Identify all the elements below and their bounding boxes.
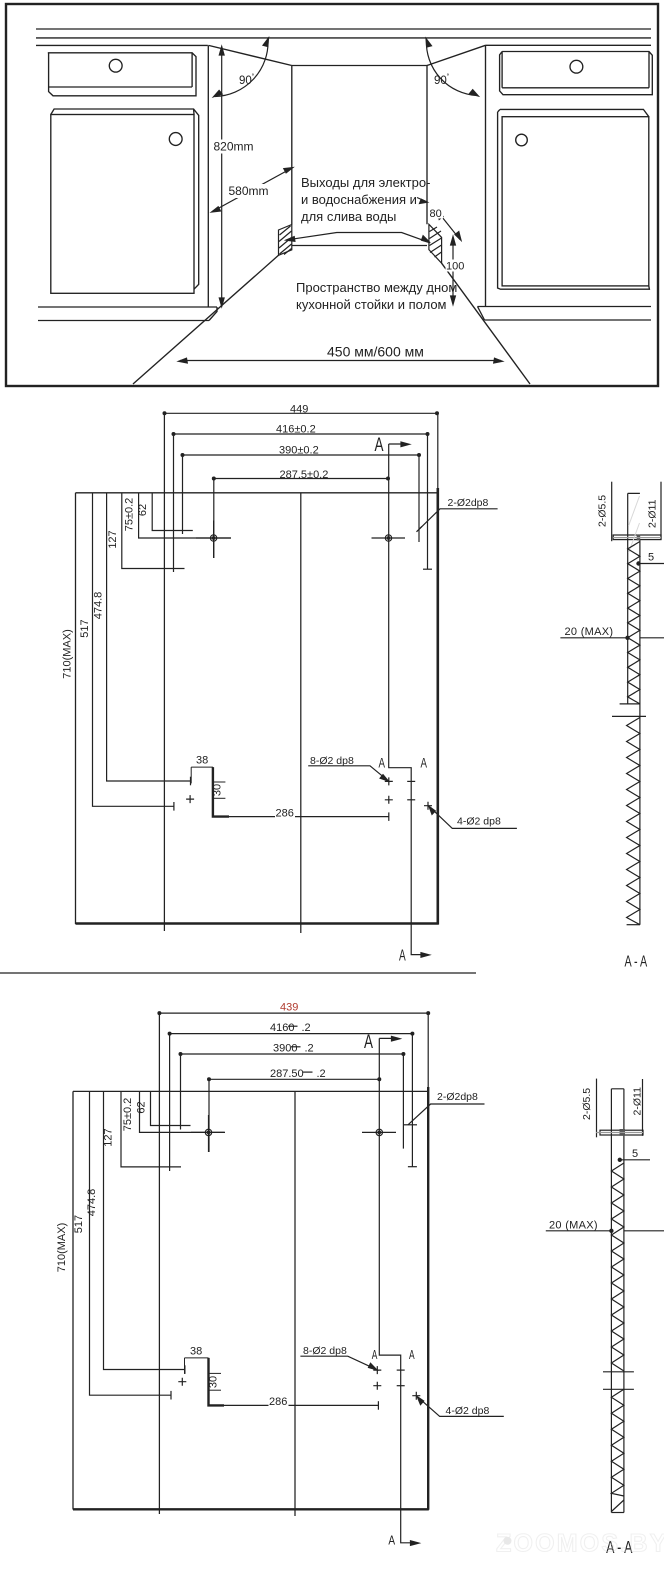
left dim 62 [151,1091,191,1125]
label 2-O5.5 [611,482,613,542]
dim 439 (red) [158,1012,430,1015]
panel top edge [73,1090,428,1092]
left drawer knob [109,59,122,72]
svg-text:517: 517 [79,619,91,637]
panel right edge [437,413,439,925]
svg-text:100: 100 [446,261,464,273]
fold line 2 [300,493,302,933]
svg-text:287.50: 287.50 [270,1068,304,1080]
construction lines (gray) [629,496,640,553]
zigzag hatch lower [627,718,640,925]
countertop underside back edge (left segment) [36,44,208,46]
svg-text:474.8: 474.8 [93,592,105,620]
svg-text:A: A [372,1347,378,1362]
left dim 127 [122,493,185,569]
svg-text:80: 80 [430,208,442,220]
label 2-O2dp8 [417,509,498,532]
hatch break ticks [603,1372,634,1390]
section line A top [379,1036,419,1545]
panel top edge [76,492,439,494]
svg-text:62: 62 [136,1101,148,1113]
niche to left wall perspective line [209,45,292,65]
svg-text:5: 5 [648,552,654,564]
svg-text:75±0.2: 75±0.2 [122,1098,134,1132]
dim 287.5+-0.2 [212,477,389,558]
svg-text:A: A [379,756,386,771]
svg-text:и водоснабжения и: и водоснабжения и [301,192,417,207]
dimension 820mm [219,47,224,307]
dim 390+-0.2 [181,454,420,542]
screw hole section [596,1129,643,1136]
hole top-right [362,1129,396,1135]
svg-text:287.5±0.2: 287.5±0.2 [280,469,329,481]
svg-text:3900: 3900 [273,1043,297,1055]
dim 287.5 0/-.2 [208,1078,381,1152]
svg-text:5: 5 [632,1148,638,1160]
svg-text:710(MAX): 710(MAX) [56,1223,68,1273]
svg-text:4-Ø2 dp8: 4-Ø2 dp8 [446,1405,490,1417]
hole top-right [372,535,406,541]
svg-text:286: 286 [276,808,294,820]
svg-text:820mm: 820mm [214,140,254,154]
notch 38/30 (bold) [185,1358,225,1406]
hatch break ticks [612,704,646,717]
fold line 2 [294,1091,296,1516]
zigzag hatch upper [628,542,640,704]
left dim 474.8 [104,1091,185,1374]
panel right edge [427,1013,429,1510]
label 8-O2 dp8 [300,1356,376,1370]
label 2-O2dp8 [403,1104,485,1125]
svg-text:286: 286 [269,1396,287,1408]
svg-text:2-Ø11: 2-Ø11 [647,499,659,528]
right cabinet side wall [485,45,487,306]
svg-text:8-Ø2 dp8: 8-Ø2 dp8 [310,755,354,767]
svg-text:30: 30 [208,1376,220,1388]
svg-text:A: A [399,948,406,965]
niche opening [292,66,427,246]
svg-text:4-Ø2 dp8: 4-Ø2 dp8 [457,816,501,828]
dim 449 [163,412,438,415]
panel left edge [72,1091,74,1509]
left dim 474.8 [107,493,191,786]
label 2-O11 [642,1079,644,1136]
svg-text:127: 127 [103,1128,115,1146]
dim 5 [618,1158,650,1161]
svg-text:38: 38 [196,755,208,767]
left dim 517 [93,493,175,811]
left door knob [169,133,182,146]
dim 20 MAX [546,1229,664,1232]
dimension 100 [451,237,456,305]
zigzag hatch upper [611,1163,624,1371]
svg-text:20 (MAX): 20 (MAX) [549,1220,598,1232]
right foot (hatched) [429,224,442,263]
svg-text:710(MAX): 710(MAX) [62,629,74,679]
svg-text:для слива воды: для слива воды [301,209,396,224]
svg-text:2-Ø2dp8: 2-Ø2dp8 [448,497,489,509]
floor diagonal left [133,255,279,384]
svg-text:A: A [364,1032,373,1053]
hole top-left [191,1115,225,1152]
hole top-left [196,521,231,559]
floor diagonal right [442,263,530,384]
svg-text:A: A [421,756,428,771]
svg-text:580mm: 580mm [229,184,269,198]
svg-text:8-Ø2 dp8: 8-Ø2 dp8 [303,1345,347,1357]
section line A top [389,442,430,957]
countertop underside back edge (right segment) [486,44,652,46]
left plinth [38,307,217,321]
dimension 90 degrees right [426,39,478,97]
svg-text:A: A [409,1347,415,1362]
dim 20 MAX [560,636,664,639]
svg-text:390±0.2: 390±0.2 [279,445,319,457]
svg-text:2-Ø2dp8: 2-Ø2dp8 [437,1091,478,1103]
dimension 80 [437,211,461,240]
svg-text:517: 517 [73,1215,85,1233]
label 2-O5.5 [596,1079,598,1138]
svg-text:20 (MAX): 20 (MAX) [565,626,614,638]
dim 416+-0.2 [172,433,432,572]
svg-text:30: 30 [212,784,224,796]
right plinth [478,307,652,321]
screw hole section [613,535,661,541]
svg-text:75±0.2: 75±0.2 [124,498,136,532]
svg-text:474.8: 474.8 [86,1189,98,1217]
left drawer front [48,53,196,96]
right drawer knob [570,60,583,73]
dim 416 0/-.2 [168,1032,417,1171]
left door [51,115,194,294]
dim 5 [637,562,664,565]
svg-text:Пространство между дном: Пространство между дном [296,280,457,295]
countertop front top edge [36,28,651,30]
section bar outline [611,1089,624,1513]
left dim 127 [121,1091,181,1167]
local y = global y - 995 [73,1013,429,1516]
right drawer front [500,52,653,95]
svg-text:.2: .2 [305,1043,314,1055]
pointer V to feet [286,233,430,243]
dim 286 [224,1401,378,1410]
left dim 62 [152,493,193,531]
svg-text:A: A [388,1533,395,1548]
svg-text:450 мм/600 мм: 450 мм/600 мм [327,344,424,360]
label 8-O2 dp8 [308,766,388,781]
svg-text:Выходы для электро-: Выходы для электро- [301,175,430,190]
svg-text:.2: .2 [302,1022,311,1034]
svg-text:кухонной стойки и полом: кухонной стойки и полом [296,297,447,312]
countertop front bottom edge [36,37,651,39]
svg-text:439: 439 [280,1002,298,1014]
left cabinet side wall [207,45,209,307]
separator line [0,972,476,974]
panel left edge [75,493,77,924]
local y = global y - 395 [76,413,439,934]
leader from outlets note [417,198,428,204]
label 4-O2 dp8 [417,1397,504,1417]
svg-text:2-Ø11: 2-Ø11 [632,1087,644,1116]
svg-text:416±0.2: 416±0.2 [276,424,316,436]
dim 286 [229,812,389,821]
dimension 580mm [212,168,293,212]
svg-text:2-Ø5.5: 2-Ø5.5 [581,1088,593,1120]
svg-text:449: 449 [290,404,308,416]
svg-text:A: A [375,435,384,456]
dimension 450/600 [179,358,503,363]
label 2-O11 [660,482,662,540]
left dim 517 [90,1091,172,1399]
notch 38/30 (bold) [191,767,229,817]
left dim 75+-0.2 [140,1091,225,1132]
zigzag hatch lower [611,1389,624,1496]
svg-text:62: 62 [137,504,149,516]
label 4-O2 dp8 [429,806,517,828]
right door knob [516,134,528,146]
panel bottom edge (thick) [76,922,439,925]
dimension 90 degrees left [214,38,269,97]
left dim 75+-0.2 [139,493,231,538]
svg-text:A - A: A - A [625,954,648,971]
svg-text:ZOOMOS.BY: ZOOMOS.BY [496,1530,664,1558]
fold line 1 [158,1013,160,1514]
dim 390 0/-.2 [179,1053,405,1149]
panel bottom edge (thick) [73,1508,429,1510]
svg-text:2-Ø5.5: 2-Ø5.5 [597,495,609,527]
frame border [6,4,658,386]
svg-text:38: 38 [190,1346,202,1358]
lower hole cross marks [178,1366,420,1400]
svg-text:4160: 4160 [270,1022,294,1034]
niche to right wall perspective line [427,45,486,65]
svg-text:90˚: 90˚ [239,73,255,87]
section bar outline [627,493,640,924]
svg-text:.2: .2 [317,1068,326,1080]
watermark zoomos.by [496,1530,664,1558]
right door [502,117,649,286]
lower hole cross marks [186,777,432,809]
fold line 1 [163,413,165,931]
svg-text:127: 127 [107,530,119,548]
left foot (hatched) [279,225,292,256]
